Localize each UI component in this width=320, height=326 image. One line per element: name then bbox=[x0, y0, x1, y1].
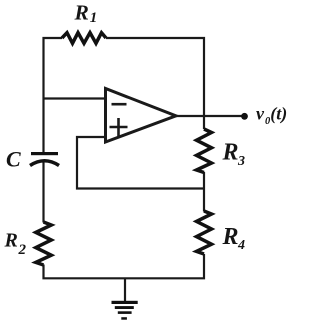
svg-text:1: 1 bbox=[90, 10, 98, 26]
svg-text:3: 3 bbox=[237, 154, 245, 169]
svg-text:R: R bbox=[74, 1, 89, 25]
svg-text:4: 4 bbox=[237, 238, 245, 253]
svg-text:C: C bbox=[6, 147, 21, 172]
svg-text:v: v bbox=[256, 103, 265, 123]
svg-text:(t): (t) bbox=[270, 103, 287, 124]
svg-text:2: 2 bbox=[18, 242, 27, 258]
svg-text:R: R bbox=[222, 140, 239, 166]
svg-text:R: R bbox=[222, 224, 239, 250]
svg-text:R: R bbox=[4, 230, 18, 252]
